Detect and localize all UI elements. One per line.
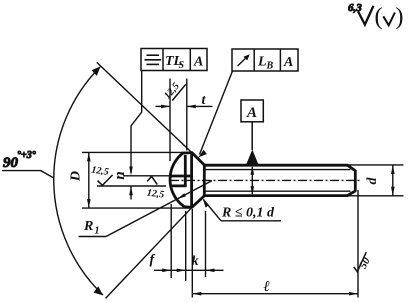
- roughness 12,5 on slot face (inverted, on upper extension line): [146, 176, 165, 200]
- svg-text:): ): [396, 4, 404, 30]
- svg-text:f: f: [150, 253, 156, 268]
- surface finish general note 6,3: [348, 2, 404, 30]
- leader from LB frame to bearing cone surface: [198, 71, 232, 157]
- dimension d (thread diameter, right): [348, 165, 404, 196]
- svg-text:B: B: [266, 61, 274, 72]
- svg-text:A: A: [246, 105, 257, 121]
- roughness 12,5 on slot face (left): [91, 165, 113, 186]
- screw axis centerline: [170, 179, 362, 181]
- svg-text:12,5: 12,5: [146, 188, 165, 201]
- dimensions f and k: [150, 204, 224, 281]
- svg-text:6,3: 6,3: [348, 2, 362, 14]
- fillet note R <= 0,1 d: [203, 199, 281, 221]
- shank end face: [354, 170, 357, 192]
- svg-text:D: D: [69, 171, 84, 182]
- svg-text:S: S: [179, 60, 185, 71]
- angle label 90deg +3deg: [2, 150, 54, 178]
- cone surface extension line lower: [106, 207, 193, 298]
- cone surface extension line upper: [97, 62, 192, 152]
- tolerance frame TLs A (slot symmetry): [141, 49, 207, 72]
- radius R1 leader and radius line: [79, 181, 213, 237]
- diameter dimension line under datum (d): [251, 166, 255, 195]
- slot bottom line (section): [184, 155, 187, 187]
- svg-text:A: A: [193, 55, 203, 70]
- head-shank junction edge: [203, 165, 206, 197]
- svg-text:ℓ: ℓ: [264, 279, 270, 295]
- leader from TLs frame to slot width dimension n: [129, 71, 142, 176]
- svg-text:R ≤ 0,1 d: R ≤ 0,1 d: [221, 206, 275, 221]
- slot upper edge: [170, 175, 193, 178]
- dimension n (slot width): [97, 171, 170, 199]
- shank end extension line with roughness 50: [354, 190, 373, 298]
- shank top edge (major diameter): [204, 165, 355, 171]
- svg-text:(: (: [375, 4, 383, 30]
- shank bottom edge (major diameter): [204, 191, 355, 196]
- svg-text:L: L: [257, 55, 267, 70]
- svg-text:1: 1: [95, 226, 100, 237]
- head bottom edge: [183, 205, 193, 209]
- svg-text:n: n: [112, 171, 128, 179]
- head top edge: [182, 151, 193, 154]
- tolerance frame LB A (runout of bearing surface): [232, 49, 298, 72]
- svg-text:A: A: [283, 55, 293, 70]
- slot lower edge: [170, 184, 186, 187]
- head angle arc 90deg: [54, 67, 103, 296]
- thread minor diameter top line: [205, 169, 351, 171]
- svg-text:12,5: 12,5: [162, 81, 182, 101]
- datum A box: [241, 100, 263, 150]
- svg-text:°+3°: °+3°: [17, 150, 36, 161]
- screw head dome arc R1: [170, 153, 184, 207]
- dimension t (slot depth) with rotated roughness 12,5: [156, 79, 213, 162]
- head max-diameter plane line: [190, 152, 193, 209]
- svg-text:R: R: [83, 219, 93, 234]
- bearing cone lower surface: [192, 196, 205, 208]
- bearing cone upper surface: [192, 153, 205, 165]
- svg-text:d: d: [365, 177, 380, 185]
- svg-text:12,5: 12,5: [91, 165, 110, 178]
- datum A filled triangle on shank surface: [246, 150, 258, 165]
- dimension l (screw length): [192, 209, 358, 298]
- thread minor diameter bottom line: [205, 190, 351, 192]
- dimension D (head diameter): [69, 152, 191, 208]
